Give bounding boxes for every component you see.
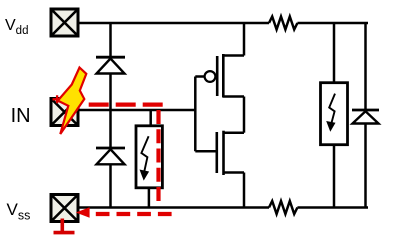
transistor PMOS M1 (205, 23, 244, 98)
pad Vdd (51, 9, 78, 36)
svg-text:Vss: Vss (7, 200, 31, 223)
clamp device S2 (power clamp) (321, 83, 348, 145)
arrowhead into Vss pad (76, 207, 90, 217)
resistor R2 (269, 201, 297, 214)
lightning bolt ESD strike (58, 68, 87, 135)
wire clamp top lead (149, 110, 152, 127)
clamp device S1 (snapback) (136, 126, 162, 188)
ESD current path dashed bottom with arrow to Vss pad (96, 212, 172, 216)
wire Vdd rail (80, 22, 270, 25)
plus polarity mark (53, 95, 62, 103)
pad IN (51, 99, 78, 126)
wire diode branch (109, 23, 112, 208)
wire right clamp branch (333, 23, 336, 208)
wire inverter output node (243, 97, 246, 133)
wire Vss rail right (297, 206, 368, 209)
wire IN line (80, 109, 196, 112)
wire gate vertical (194, 77, 197, 152)
ESD current path dashed vertical (156, 110, 160, 201)
wire Vss rail (80, 206, 270, 209)
transistor NMOS M2 (195, 131, 244, 208)
svg-text:Vdd: Vdd (5, 17, 28, 37)
pad Vss (51, 195, 78, 222)
diode D2 (96, 148, 125, 164)
wire PMOS gate stub (195, 75, 204, 78)
diode D3 (352, 110, 379, 124)
ESD current path dashed horizontal top (89, 102, 163, 106)
ground symbol (red) (54, 219, 75, 233)
resistor R1 (269, 17, 297, 30)
wire right diode branch (364, 23, 367, 208)
wire Vdd rail right (297, 22, 368, 25)
svg-text:IN: IN (11, 105, 31, 127)
wire clamp bottom lead (148, 186, 151, 208)
diode D1 (96, 57, 125, 73)
